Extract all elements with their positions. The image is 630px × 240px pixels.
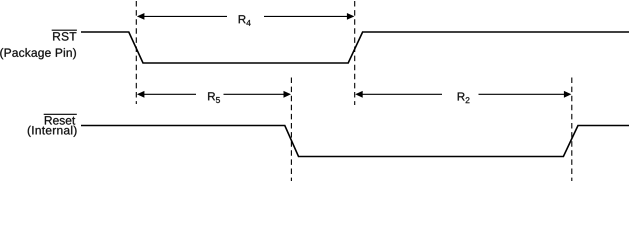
signal RST (Package Pin) waveform [81,32,629,63]
label Reset (overbar) [44,114,77,124]
label R5 [208,92,220,103]
dashed reference line t1 (RST fall) [135,1,137,104]
dashed reference line t2 (Reset fall) [290,78,292,182]
dimension arrow R2 (t3 to t4) [355,91,571,98]
label R4 [239,15,251,26]
label (Package Pin) [0,48,76,59]
dimension arrow R5 (t1 to t2) [137,91,291,98]
dashed reference line t4 (Reset rise) [571,78,573,182]
label (Internal) [28,126,77,137]
dimension arrow R4 (t1 to t3) [137,13,355,20]
label R2 [458,93,470,104]
dashed reference line t3 (RST rise) [354,1,356,105]
signal Reset (Internal) waveform [81,126,629,157]
label RST (overbar) [52,30,77,40]
